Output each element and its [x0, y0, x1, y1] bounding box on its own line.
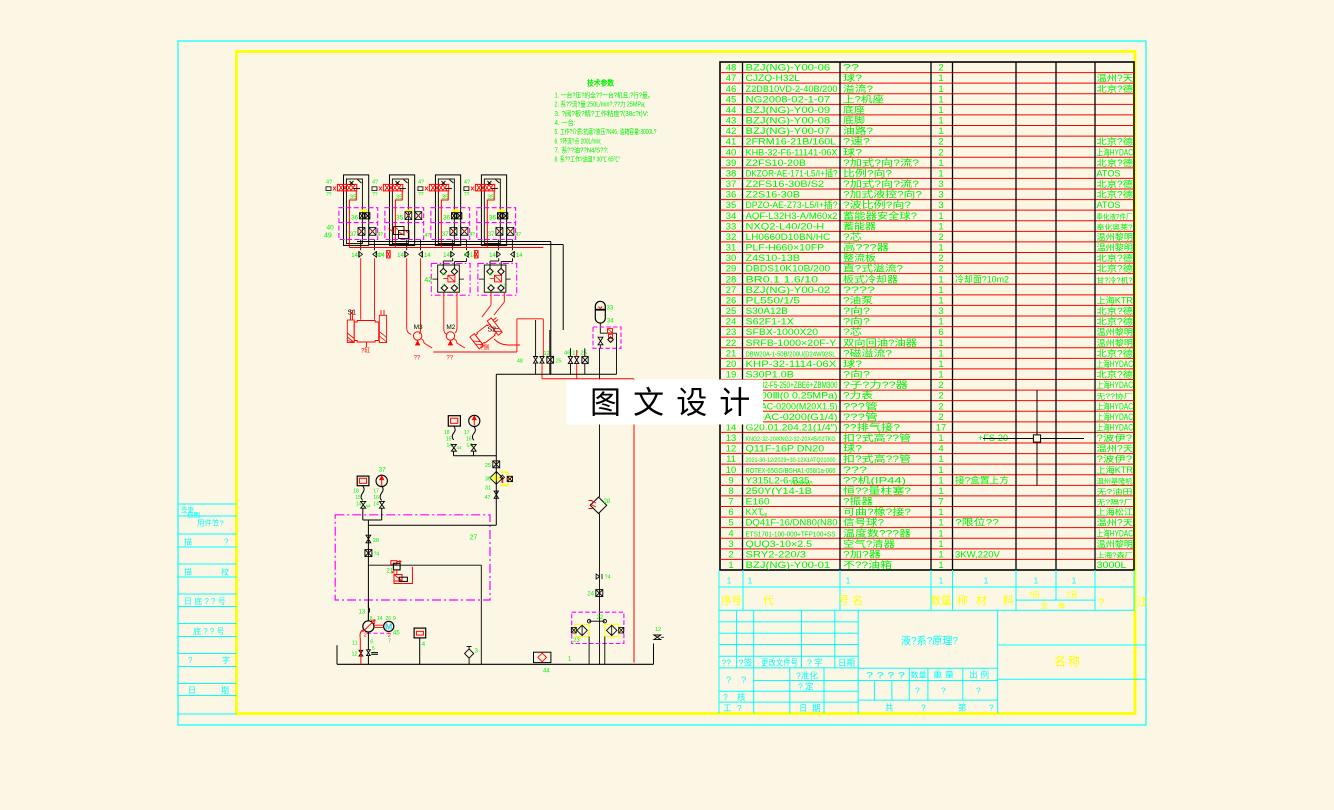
svg-text:料: 料: [1003, 593, 1014, 607]
work lines station 3 into valve block 42a: [443, 258, 466, 268]
svg-text:36: 36: [351, 215, 359, 222]
proportional valve group box station 2 (magenta): [385, 208, 424, 240]
svg-text:9: 9: [728, 475, 733, 486]
svg-text:1: 1: [1072, 576, 1077, 586]
svg-text:???管: ???管: [843, 400, 878, 411]
svg-text:?: ?: [737, 703, 742, 713]
svg-text:46 12 25: 46 12 25: [564, 351, 587, 357]
svg-text:CJZQ-H32L: CJZQ-H32L: [746, 73, 800, 83]
svg-text:13: 13: [726, 433, 737, 444]
svg-text:1: 1: [938, 221, 943, 232]
svg-text:35: 35: [396, 215, 404, 222]
svg-text:上海HYDAC: 上海HYDAC: [1097, 400, 1134, 411]
valve station 2 manifold outline: [389, 175, 414, 246]
svg-text:22: 22: [726, 338, 737, 349]
svg-text:40: 40: [726, 147, 737, 158]
svg-text:1: 1: [938, 465, 943, 476]
svg-text:32: 32: [726, 232, 737, 243]
svg-text:17: 17: [373, 489, 379, 495]
svg-text:ROTEX-65GG/BGHA1-058/1a-066: ROTEX-65GG/BGHA1-058/1a-066: [746, 466, 836, 475]
svg-text:16: 16: [466, 437, 472, 443]
svg-text:48: 48: [726, 63, 737, 74]
svg-text:温州?天: 温州?天: [1097, 444, 1134, 454]
svg-text:E160: E160: [746, 497, 770, 507]
svg-text:37: 37: [379, 467, 387, 474]
svg-text:?芯: ?芯: [843, 326, 862, 337]
title block header row (yellow text): [719, 587, 1148, 610]
svg-text:?波比例?向?: ?波比例?向?: [843, 199, 911, 210]
svg-text:BZJ(NG)-Y00-07: BZJ(NG)-Y00-07: [746, 126, 831, 136]
svg-text:DKZOR-AE-171-L5/I+插?: DKZOR-AE-171-L5/I+插?: [746, 167, 838, 178]
svg-text:14: 14: [397, 253, 404, 259]
station 4 outlet lines: [499, 240, 513, 251]
svg-text:不??油箱: 不??油箱: [843, 559, 892, 570]
svg-text:技术参数: 技术参数: [587, 78, 614, 88]
ball valve group 48/12/25: [517, 320, 562, 379]
svg-text:底脚: 底脚: [843, 115, 865, 126]
red pilot collector line: [350, 247, 544, 249]
svg-text:数量: 数量: [911, 670, 928, 680]
yellow tag on station 4: [498, 209, 505, 211]
title block sub-row of 1s (cyan): [719, 570, 1134, 587]
svg-text:QUQ3-10×2.5: QUQ3-10×2.5: [746, 539, 813, 549]
svg-text:3000L: 3000L: [1097, 560, 1127, 570]
svg-text:15: 15: [355, 495, 361, 501]
svg-text:甘?冷?机?: 甘?冷?机?: [1097, 275, 1133, 284]
svg-text:侮: 侮: [1058, 601, 1065, 610]
svg-text:KNG2-32-20/KNG2-32-20X45/02TKG: KNG2-32-20/KNG2-32-20X45/02TKG: [746, 436, 836, 443]
svg-text:14: 14: [489, 253, 496, 259]
svg-text:34: 34: [607, 319, 614, 325]
svg-text:北京?德: 北京?德: [1097, 157, 1134, 168]
svg-text:M2: M2: [446, 324, 455, 331]
title block signature rows: [719, 668, 858, 713]
svg-text:1: 1: [938, 338, 943, 349]
svg-text:14: 14: [373, 502, 379, 508]
svg-text:44: 44: [543, 669, 550, 675]
valve 14a in pump box: [365, 550, 379, 558]
svg-text:44: 44: [726, 105, 737, 116]
svg-text:北京?德: 北京?德: [1097, 316, 1134, 327]
svg-text:26: 26: [386, 616, 392, 622]
svg-text:1: 1: [984, 576, 989, 586]
check valves 14 under station 3: [443, 251, 477, 259]
svg-text:?向?: ?向?: [843, 369, 870, 380]
ball valve group 46/12/25: [564, 348, 588, 379]
svg-text:4: 4: [938, 444, 943, 455]
svg-text:3: 3: [938, 200, 943, 211]
station 2 labels (green): [372, 180, 403, 202]
svg-text:温州黎明: 温州黎明: [1097, 326, 1134, 337]
svg-text:1: 1: [846, 576, 851, 586]
title block drawing-name cell: [901, 610, 998, 713]
svg-text:3. ?阀?板?精?工作粘度?(38c?t)V:: 3. ?阀?板?精?工作粘度?(38c?t)V:: [555, 109, 649, 118]
svg-text:BZJ(NG)-Y00-01: BZJ(NG)-Y00-01: [746, 560, 831, 570]
relief valve 38 on station 2 (red): [379, 184, 403, 191]
cylinder S2 drain (red): [494, 339, 520, 345]
svg-text:计: 计: [719, 386, 750, 421]
yellow tag on station 3: [452, 209, 459, 211]
svg-text:ETS1701-100-000+TFP100+SS: ETS1701-100-000+TFP100+SS: [746, 529, 836, 538]
svg-text:?4: ?4: [605, 575, 611, 581]
svg-text:M: M: [385, 622, 392, 632]
svg-text:?子?力??器: ?子?力??器: [843, 379, 908, 390]
svg-text:?侧: ?侧: [480, 344, 489, 352]
svg-text:2FRM16-21B/160L: 2FRM16-21B/160L: [746, 137, 837, 147]
svg-text:28: 28: [373, 538, 379, 544]
svg-text:1: 1: [938, 518, 943, 529]
check block 42b body: [479, 265, 511, 292]
svg-text:核: 核: [737, 692, 746, 702]
svg-text:球?: 球?: [843, 146, 862, 157]
svg-text:12: 12: [726, 444, 737, 455]
svg-text:PLF-H660×10FP: PLF-H660×10FP: [746, 243, 825, 253]
svg-text:M3: M3: [414, 324, 423, 331]
svg-text:??: ??: [446, 356, 453, 362]
svg-text:1: 1: [938, 539, 943, 550]
svg-text:?: ?: [989, 703, 994, 713]
svg-text:37: 37: [726, 179, 737, 190]
title block qty/weight/scale cells: [858, 668, 998, 712]
svg-text:名: 名: [852, 593, 863, 607]
svg-text:ATOS: ATOS: [1097, 168, 1121, 178]
svg-text:5: 5: [372, 646, 375, 652]
svg-text:34: 34: [726, 211, 737, 222]
svg-text:用件笠?: 用件笠?: [197, 518, 224, 528]
svg-text:北京?德: 北京?德: [1097, 252, 1134, 263]
pilot header inside pump box: [368, 565, 481, 664]
svg-text:?: ?: [723, 692, 728, 702]
svg-text:温州黎明: 温州黎明: [1097, 231, 1134, 242]
svg-text:2: 2: [938, 232, 943, 243]
hydraulic motor M2: [446, 324, 465, 362]
shutoff valve 28a in pump box: [366, 535, 379, 544]
svg-text:2: 2: [938, 137, 943, 148]
svg-text:KHB-32-F6-11141-06X: KHB-32-F6-11141-06X: [746, 147, 838, 157]
svg-text:28: 28: [604, 499, 611, 505]
svg-text:??: ??: [418, 192, 424, 198]
svg-text:1: 1: [938, 528, 943, 539]
watermark band: [567, 380, 764, 425]
svg-text:??: ??: [326, 192, 332, 198]
svg-text:温州黎明: 温州黎明: [1097, 242, 1134, 253]
return filter 1/44: [534, 652, 573, 674]
svg-text:26: 26: [726, 295, 737, 306]
svg-text:16: 16: [373, 495, 379, 501]
svg-text:43: 43: [726, 116, 737, 127]
svg-text:温度数???器: 温度数???器: [843, 527, 911, 538]
svg-text:可曲?橡?接?: 可曲?橡?接?: [843, 506, 911, 517]
svg-text:33: 33: [726, 221, 737, 232]
svg-text:?加式液控?向?: ?加式液控?向?: [843, 189, 922, 200]
svg-text:?: ?: [941, 686, 946, 696]
station 3 top fittings (black): [418, 180, 454, 191]
svg-text:?芯: ?芯: [843, 231, 862, 242]
svg-text:上海HYDAC: 上海HYDAC: [1097, 379, 1134, 390]
station 3 outlet lines: [453, 240, 467, 251]
check valves 14 under station 4: [489, 251, 523, 259]
svg-text:1: 1: [938, 475, 943, 486]
svg-text:?力表: ?力表: [843, 390, 873, 401]
svg-text:36: 36: [726, 190, 737, 201]
svg-text:1: 1: [938, 105, 943, 116]
svg-text:描: 描: [184, 537, 192, 547]
technical notes (green): [555, 78, 657, 164]
svg-text:40: 40: [327, 225, 335, 232]
svg-text:44: 44: [457, 445, 463, 450]
svg-text:1: 1: [938, 486, 943, 497]
svg-text:1: 1: [938, 549, 943, 560]
main pressure line with valves 25/30/47: [368, 374, 512, 525]
svg-text:?缸: ?缸: [361, 347, 370, 355]
svg-text:1: 1: [728, 560, 733, 571]
svg-text:1: 1: [1034, 576, 1039, 586]
svg-text:2: 2: [938, 253, 943, 264]
svg-text:44: 44: [365, 504, 371, 509]
svg-text:?向?: ?向?: [843, 305, 870, 316]
crosshair cursor: [983, 390, 1084, 486]
svg-text:双向回油?油器: 双向回油?油器: [843, 337, 917, 348]
svg-text:1: 1: [938, 359, 943, 370]
station 4 labels (green): [464, 180, 495, 202]
svg-text:宜: 宜: [1041, 601, 1048, 610]
svg-text:??: ??: [372, 192, 378, 198]
svg-text:上海HYDAC: 上海HYDAC: [1097, 421, 1134, 432]
main pump 8 and motor 9 group: [352, 600, 401, 664]
svg-text:S1: S1: [348, 310, 357, 317]
svg-text:1. 一台?压?的全??一台?机且,?行?量。: 1. 一台?压?的全??一台?机且,?行?量。: [555, 91, 654, 100]
yellow tag on station 1: [361, 209, 368, 211]
svg-text:上海HYDAC: 上海HYDAC: [1097, 411, 1134, 422]
svg-text:冷却面?10m2: 冷却面?10m2: [955, 273, 1009, 284]
svg-text:北京?德: 北京?德: [1097, 347, 1134, 358]
svg-text:?: ?: [915, 686, 920, 696]
svg-text:??: ??: [843, 63, 859, 73]
svg-text:14: 14: [447, 443, 453, 449]
station 2 top fittings (black): [372, 180, 408, 191]
svg-text:15: 15: [446, 437, 452, 443]
pressure gauge pair upper: [444, 415, 496, 455]
svg-text:底座: 底座: [843, 104, 865, 115]
svg-text:共: 共: [885, 703, 894, 713]
accumulator safety block 34 (magenta box): [593, 327, 621, 348]
svg-text:38: 38: [726, 168, 737, 179]
svg-text:1: 1: [938, 507, 943, 518]
svg-text:3: 3: [938, 306, 943, 317]
svg-text:S2: S2: [488, 327, 497, 334]
svg-text:14: 14: [516, 253, 523, 259]
parts list table text: [726, 63, 1134, 571]
svg-text:BZJ(NG)-Y00-02: BZJ(NG)-Y00-02: [746, 285, 831, 295]
svg-text:名称: 名称: [1054, 654, 1082, 669]
svg-text:北京?德: 北京?德: [1097, 263, 1134, 274]
svg-text:LH0660D10BN/HC: LH0660D10BN/HC: [746, 232, 831, 242]
svg-text:?磁溢流?: ?磁溢流?: [843, 347, 892, 358]
svg-text:DBDS10K10B/200: DBDS10K10B/200: [746, 264, 831, 274]
svg-text:扣?式高??管: 扣?式高??管: [843, 432, 911, 443]
svg-text:扣?式高??管: 扣?式高??管: [843, 453, 911, 464]
svg-text:33: 33: [607, 306, 614, 312]
svg-text:蓄能器: 蓄能器: [843, 220, 876, 231]
svg-text:36: 36: [443, 215, 451, 222]
return header (black): [496, 348, 616, 497]
svg-text:24: 24: [587, 592, 594, 598]
unloading valve 21 (red): [387, 560, 413, 583]
svg-text:24: 24: [726, 317, 737, 328]
svg-text:19: 19: [726, 370, 737, 381]
svg-text:48: 48: [517, 359, 523, 365]
svg-text:Y: Y: [489, 283, 492, 288]
svg-text:?签: ?签: [739, 658, 754, 668]
cylinder S1 (red): [347, 310, 386, 355]
svg-text:球?: 球?: [843, 443, 862, 454]
svg-text:校: 校: [221, 567, 229, 577]
svg-text:??排气接?: ??排气接?: [843, 421, 900, 432]
svg-text:4?: 4?: [326, 180, 332, 186]
svg-text:1: 1: [938, 348, 943, 359]
svg-text:北京?德: 北京?德: [1097, 83, 1134, 94]
svg-text:37: 37: [442, 232, 449, 238]
svg-text:1: 1: [727, 576, 732, 586]
svg-text:SFBX-1000X20: SFBX-1000X20: [746, 327, 819, 337]
cylinder S2 (red, tilted): [469, 315, 506, 350]
svg-text:北京?德: 北京?德: [1097, 178, 1134, 189]
svg-text:温州?天: 温州?天: [1097, 518, 1134, 528]
svg-text:Z4S10-13B: Z4S10-13B: [746, 253, 800, 263]
svg-text:1: 1: [938, 94, 943, 105]
svg-text:30: 30: [726, 253, 737, 264]
svg-text:39: 39: [726, 158, 737, 169]
svg-text:奉化液?件厂: 奉化液?件厂: [1097, 212, 1133, 221]
svg-text:23: 23: [573, 638, 580, 644]
svg-text:?宜: ?宜: [1066, 589, 1078, 599]
svg-text:上海HYDAC: 上海HYDAC: [1097, 358, 1134, 369]
svg-text:12: 12: [655, 627, 661, 633]
svg-text:2: 2: [938, 380, 943, 391]
svg-text:BZJ(NG)-Y00-08: BZJ(NG)-Y00-08: [746, 116, 831, 126]
svg-text:10: 10: [726, 465, 737, 476]
svg-text:25: 25: [726, 306, 737, 317]
pilot line from relief valve (red): [487, 191, 494, 248]
svg-text:49: 49: [324, 233, 332, 240]
svg-text:描: 描: [184, 567, 192, 577]
svg-text:Z2DB10VD-2-40B/200: Z2DB10VD-2-40B/200: [746, 84, 838, 94]
svg-text:1: 1: [938, 454, 943, 465]
svg-text:BZJ(NG)-Y00-06: BZJ(NG)-Y00-06: [746, 63, 831, 73]
svg-text:46: 46: [726, 84, 737, 95]
svg-text:? 定: ? 定: [798, 682, 814, 692]
proportional valve group box station 3 (magenta): [431, 208, 470, 240]
svg-text:35: 35: [726, 200, 737, 211]
title block revision table: [719, 610, 858, 713]
svg-text:4?: 4?: [418, 180, 424, 186]
pilot operated check block 42b (magenta box): [478, 263, 517, 295]
svg-text:29: 29: [726, 264, 737, 275]
svg-text:KHP-32-1114-06X: KHP-32-1114-06X: [746, 359, 837, 369]
svg-text:溢流?: 溢流?: [843, 83, 873, 94]
svg-text:上?机座: 上?机座: [843, 93, 884, 104]
svg-text:17: 17: [936, 422, 947, 433]
svg-text:设: 设: [676, 386, 707, 421]
svg-text:30: 30: [485, 477, 491, 483]
svg-text:?: ?: [921, 703, 926, 713]
svg-text:4?: 4?: [372, 180, 378, 186]
svg-text:47: 47: [726, 73, 737, 84]
svg-text:1: 1: [748, 576, 753, 586]
station 2 outlet lines: [407, 240, 421, 251]
svg-text:1: 1: [938, 274, 943, 285]
svg-text:接?盒置上方: 接?盒置上方: [955, 474, 1009, 485]
svg-text:?速?: ?速?: [843, 137, 870, 147]
svg-text:日期: 日期: [838, 658, 855, 668]
svg-text:27: 27: [726, 285, 737, 296]
svg-text:?: ?: [1098, 597, 1104, 609]
svg-text:3: 3: [938, 179, 943, 190]
svg-text:无??协厂: 无??协厂: [1097, 392, 1133, 401]
motor drain collector (red): [433, 319, 543, 357]
svg-text:?加?器: ?加?器: [843, 549, 881, 559]
svg-text:2: 2: [938, 63, 943, 74]
check valves 14 under station 2: [397, 251, 431, 259]
svg-text:1: 1: [938, 84, 943, 95]
svg-text:4?: 4?: [515, 232, 521, 238]
svg-text:?振器: ?振器: [843, 496, 873, 507]
svg-text:1: 1: [938, 126, 943, 137]
svg-text:DPZO-AE-Z73-L5/I+插?: DPZO-AE-Z73-L5/I+插?: [746, 199, 838, 210]
svg-text:1: 1: [938, 158, 943, 169]
svg-text:更改文件号: 更改文件号: [761, 658, 798, 668]
svg-text:4: 4: [728, 528, 733, 539]
svg-text:??: ??: [722, 658, 732, 668]
valve station 3 manifold outline: [435, 175, 460, 246]
svg-text:代: 代: [763, 594, 774, 607]
svg-text:工: 工: [723, 703, 732, 713]
oil cooler 28: [589, 497, 611, 513]
work lines station 1 to cylinder S1 (red): [361, 258, 375, 320]
black tank header line: [357, 242, 563, 375]
svg-text:31: 31: [726, 243, 737, 254]
relief valve 38 on station 1 (red): [333, 184, 357, 191]
svg-text:Z2FS16-30B/S2: Z2FS16-30B/S2: [746, 179, 825, 189]
svg-text:S30P1.0B: S30P1.0B: [746, 370, 794, 380]
svg-text:45: 45: [726, 94, 737, 105]
svg-text:空气?清器: 空气?清器: [843, 538, 895, 549]
svg-text:7. 系??油??N4/S??:: 7. 系??油??N4/S??:: [555, 145, 609, 154]
svg-text:7: 7: [938, 497, 943, 508]
hydraulic motor M3: [413, 324, 432, 362]
tank line: [337, 645, 654, 664]
directional valve pair station 2 (top half): [396, 212, 422, 222]
svg-text:数量: 数量: [931, 594, 952, 607]
parts list table grid: [720, 62, 1134, 570]
svg-text:温州黎明: 温州黎明: [1097, 337, 1134, 348]
station 1 outlet lines: [361, 240, 375, 251]
tank isolation valve 12 (right): [654, 627, 664, 664]
svg-text:14: 14: [356, 502, 362, 508]
svg-text:25: 25: [485, 463, 491, 469]
station 1 top fittings (black): [326, 180, 362, 191]
svg-text:蓄能器安全球?: 蓄能器安全球?: [843, 210, 917, 221]
svg-text:6: 6: [370, 640, 373, 646]
svg-text:称: 称: [957, 593, 968, 607]
station 2 red proportional valve (bottom half): [388, 226, 430, 239]
svg-text:温州?天: 温州?天: [1097, 73, 1134, 83]
svg-text:?: ?: [976, 686, 981, 696]
directional valve pair 36 station 1: [351, 213, 370, 222]
valve station 1 manifold outline: [344, 175, 369, 246]
svg-text:北京?德: 北京?德: [1097, 189, 1134, 200]
svg-text:Y: Y: [442, 283, 445, 288]
